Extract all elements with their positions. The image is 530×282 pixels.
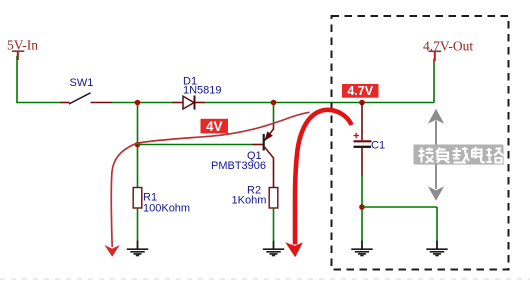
diode D1 cathode bar bbox=[194, 96, 196, 110]
diode D1 right pin bbox=[195, 102, 205, 104]
annotation thin red arrow bbox=[111, 112, 309, 247]
svg-text:4V: 4V bbox=[206, 119, 223, 134]
resistor R1 bbox=[133, 188, 142, 209]
port tick 5V-In bbox=[12, 50, 24, 52]
switch SW1 left pin bbox=[60, 102, 70, 104]
svg-text:1N5819: 1N5819 bbox=[183, 85, 222, 97]
capacitor C1 top plate bbox=[354, 140, 372, 142]
label box 4V bbox=[201, 119, 229, 134]
ground G2 bbox=[263, 241, 284, 256]
switch SW1 blade bbox=[69, 93, 91, 104]
wire output vertical bbox=[433, 59, 435, 103]
ground G3 bbox=[351, 241, 372, 256]
port tick 4.7V-Out bbox=[429, 50, 442, 52]
junction J4 bbox=[359, 100, 365, 106]
transistor Q1 emitter pin bbox=[273, 123, 275, 130]
wire bottom net vertical bbox=[436, 207, 438, 242]
glyph 电 bbox=[472, 147, 485, 162]
wire C1 to ground bbox=[361, 176, 363, 242]
glyph 路 bbox=[487, 148, 504, 163]
transistor Q1 emitter arrow bbox=[265, 132, 272, 140]
svg-text:C1: C1 bbox=[371, 140, 385, 152]
transistor Q1 collector pin bbox=[273, 158, 275, 189]
annotation thick red arrow bbox=[295, 110, 352, 245]
wire R2 to ground bbox=[273, 208, 275, 242]
wire emitter vertical bbox=[273, 103, 275, 124]
transistor Q1 base bar bbox=[263, 134, 265, 151]
transistor Q1 base pin bbox=[252, 144, 263, 146]
svg-text:4.7V-Out: 4.7V-Out bbox=[423, 39, 473, 54]
capacitor C1 bottom pin bbox=[361, 147, 363, 176]
junction J2 bbox=[135, 142, 141, 148]
ground G1 bbox=[127, 241, 148, 256]
load-circuit label box (接负载电路) bbox=[414, 145, 505, 166]
diode D1 triangle bbox=[183, 96, 194, 109]
wire bottom net horizontal bbox=[362, 206, 437, 208]
wire base net bbox=[138, 144, 253, 146]
annotation thin red arrowhead bbox=[105, 245, 120, 257]
switch SW1 right pin bbox=[91, 102, 113, 104]
junction J3 bbox=[271, 100, 277, 106]
wire 5V-In vertical bbox=[16, 56, 18, 103]
svg-text:PMBT3906: PMBT3906 bbox=[211, 160, 266, 172]
gray arrow down bbox=[435, 164, 437, 189]
svg-text:5V-In: 5V-In bbox=[7, 38, 38, 53]
glyph 载 bbox=[453, 147, 470, 163]
label box 4.7V bbox=[342, 84, 379, 98]
glyph 负 bbox=[436, 148, 450, 163]
junction J1 bbox=[135, 100, 141, 106]
gray arrow up bbox=[435, 121, 437, 146]
wire input horizontal bbox=[16, 102, 60, 104]
junction J5 bbox=[359, 204, 365, 210]
capacitor C1 top pin bbox=[361, 103, 363, 141]
svg-text:4.7V: 4.7V bbox=[347, 84, 373, 98]
transistor Q1 collector diagonal bbox=[265, 147, 274, 158]
wire switch to junction bbox=[112, 102, 172, 104]
svg-text:1Kohm: 1Kohm bbox=[232, 195, 267, 207]
glyph 接 bbox=[419, 148, 434, 163]
wire R1 to ground bbox=[137, 208, 139, 242]
capacitor C1 plus sign bbox=[354, 133, 360, 138]
ground G4 bbox=[426, 241, 447, 256]
resistor R2 bbox=[269, 188, 278, 209]
svg-text:100Kohm: 100Kohm bbox=[143, 203, 190, 215]
wire main rail right bbox=[205, 102, 434, 104]
annotation thick red arrowhead bbox=[285, 242, 303, 257]
bottom faint dotted line bbox=[0, 278, 530, 280]
svg-text:SW1: SW1 bbox=[70, 77, 94, 89]
wire R1 branch vertical bbox=[137, 103, 139, 188]
diode D1 left pin bbox=[172, 102, 183, 104]
capacitor C1 bottom plate bbox=[354, 146, 372, 148]
transistor Q1 emitter diagonal bbox=[265, 129, 274, 141]
dashed load box bbox=[332, 16, 509, 270]
